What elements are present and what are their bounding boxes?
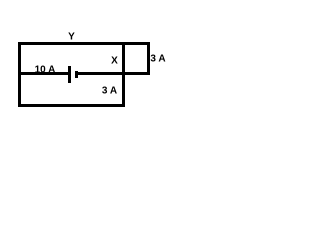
svg-text:3 A: 3 A xyxy=(150,53,165,64)
svg-text:10 A: 10 A xyxy=(35,64,56,75)
svg-text:3 A: 3 A xyxy=(102,85,117,96)
svg-text:Y: Y xyxy=(68,31,75,42)
svg-text:X: X xyxy=(111,55,118,66)
